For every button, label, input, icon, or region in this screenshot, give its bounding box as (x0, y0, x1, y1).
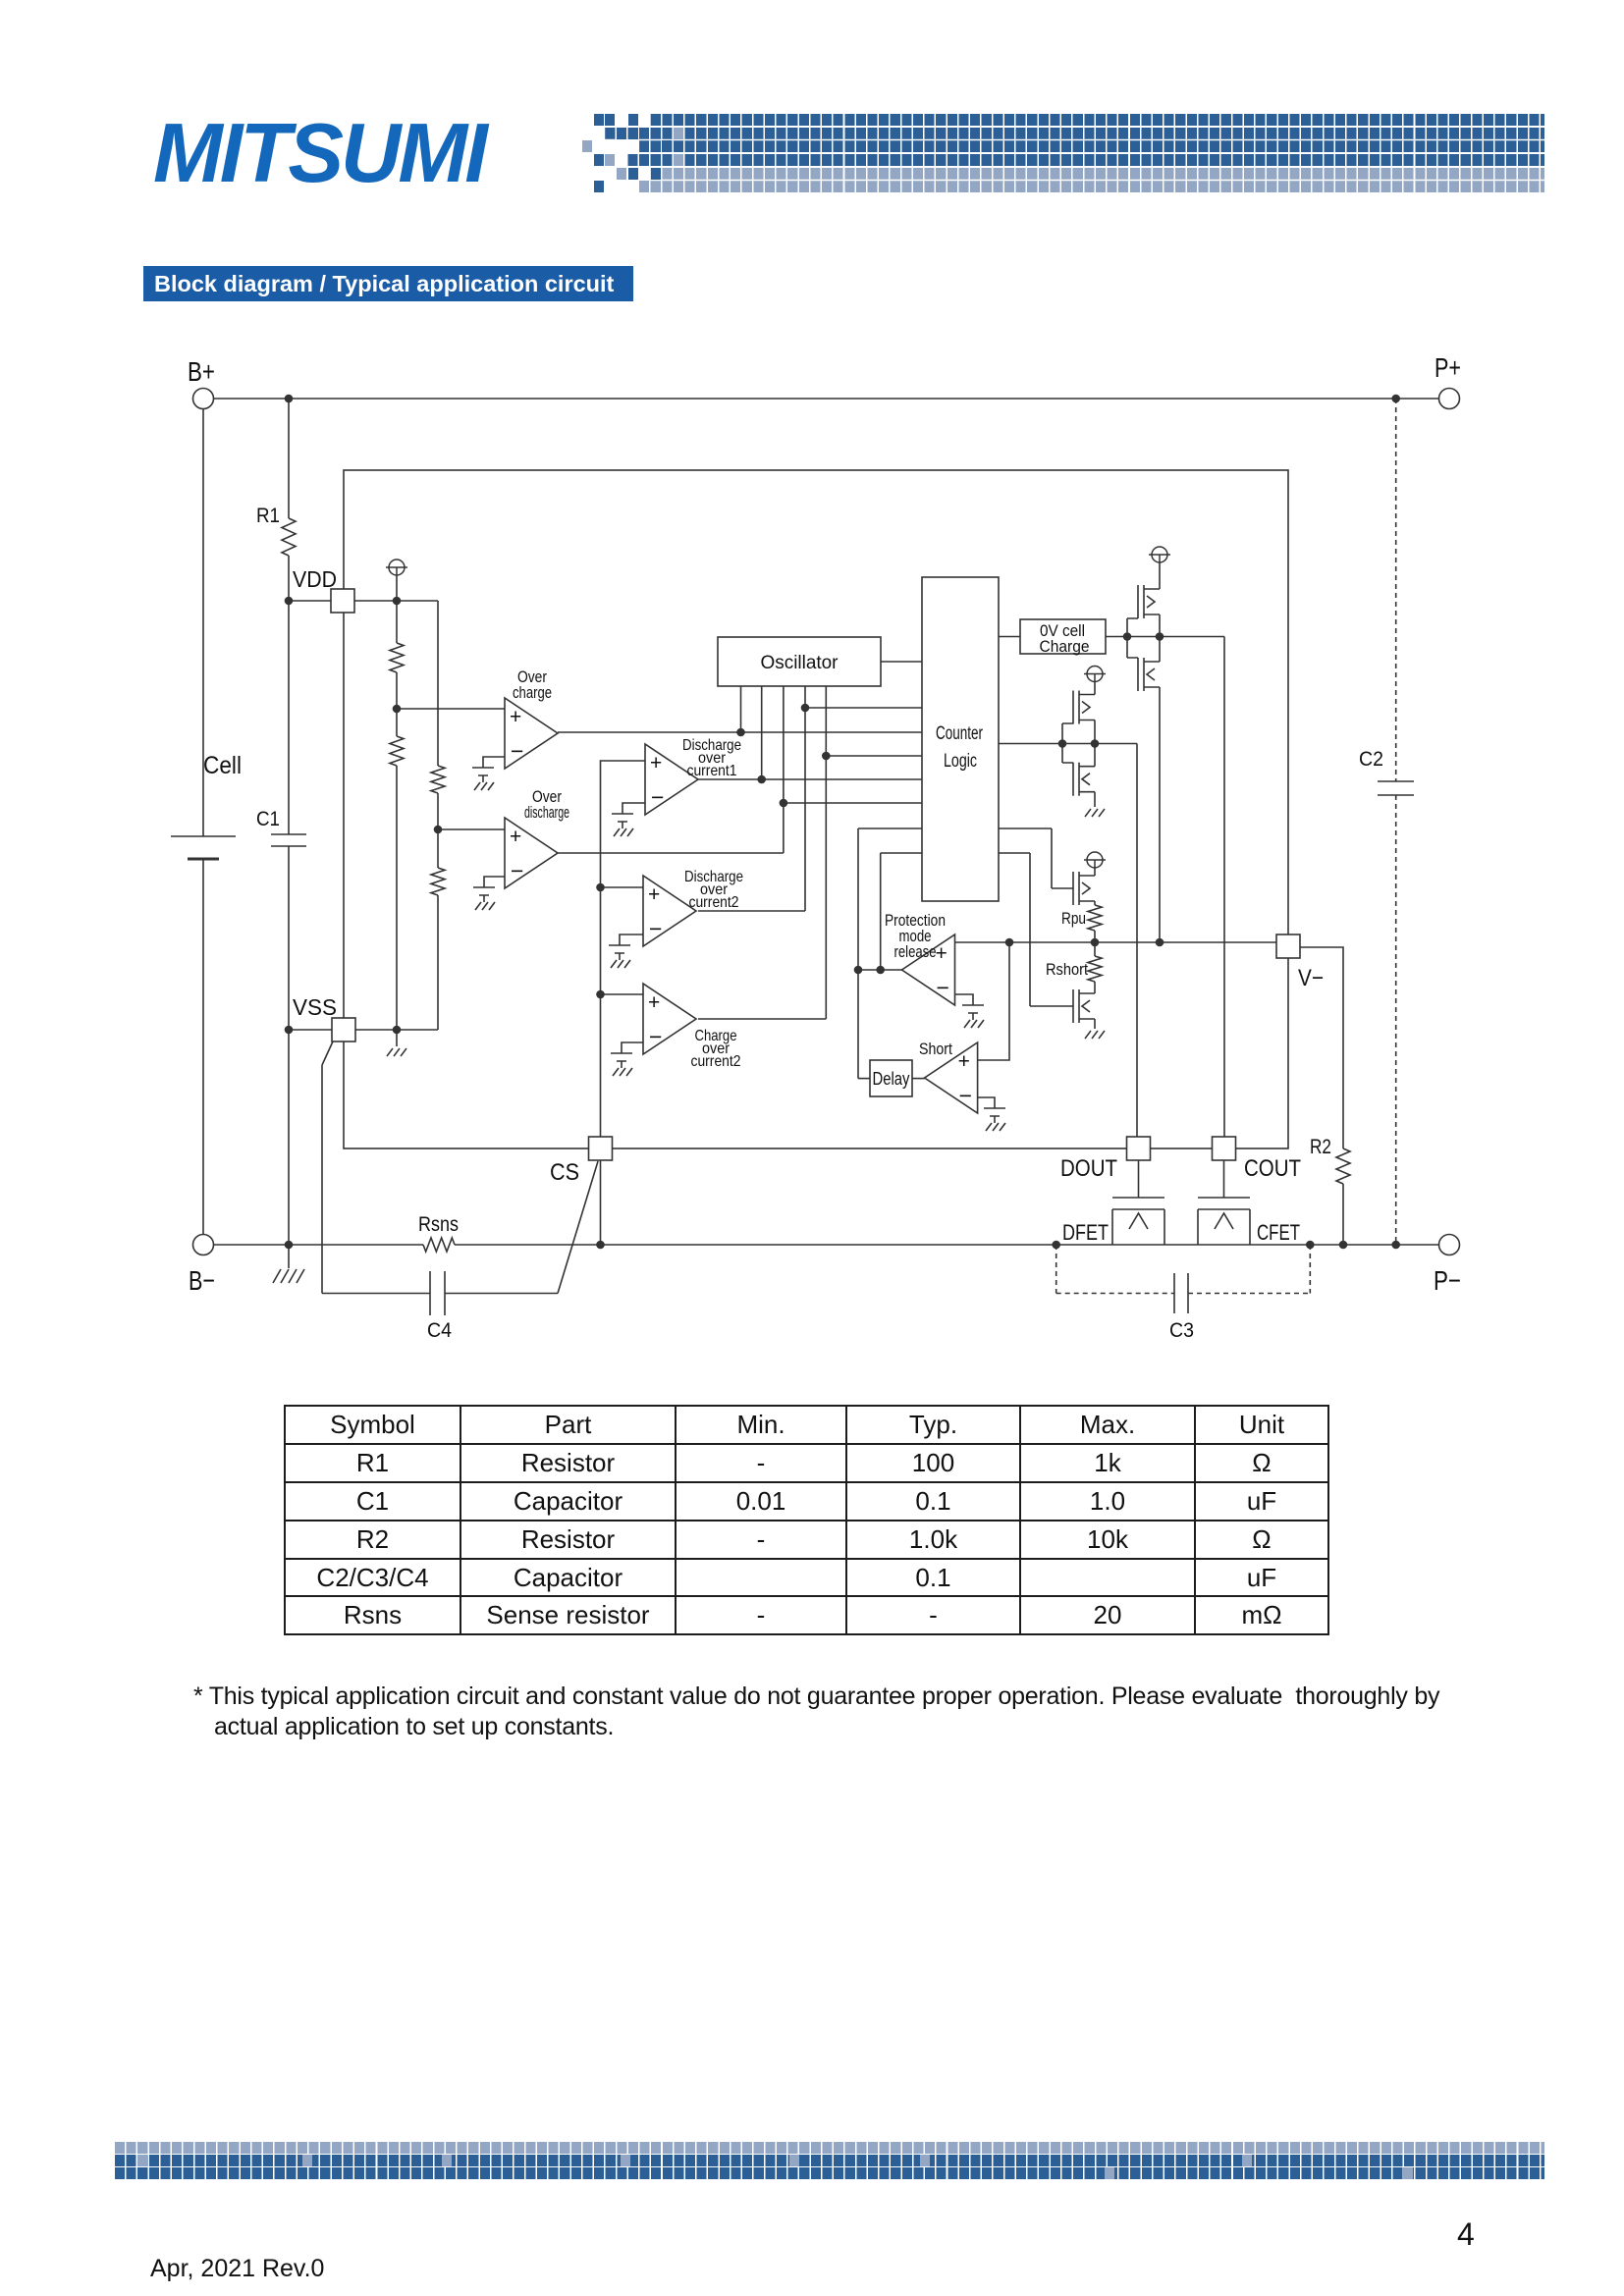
wire DOC1 output bus (698, 778, 922, 780)
node CFET drain / C3 box (1306, 1241, 1315, 1250)
transistor DFET (1112, 1160, 1164, 1245)
svg-text:+: + (650, 752, 662, 774)
node Rpu-Rshort / V- net (1091, 938, 1100, 947)
svg-text:+: + (936, 942, 947, 965)
wire DOC2 - to ref (620, 934, 643, 945)
wire VSS to C4 (322, 1041, 430, 1294)
pin VSS (332, 1018, 355, 1041)
footnote (193, 1682, 1439, 1742)
wire Q3 drain to node (1094, 721, 1096, 744)
node PMR out junction (876, 966, 885, 975)
svg-text:Counter: Counter (936, 723, 983, 744)
node pair2 output node (1091, 739, 1100, 748)
svg-text:+: + (648, 991, 660, 1014)
svg-text:−: − (937, 975, 949, 1000)
wire bus y770 (826, 755, 922, 757)
op-amp Discharge over current1 comparator (645, 744, 698, 815)
top right mosaic banner (582, 114, 1544, 126)
node short + / V- net (1005, 938, 1014, 947)
op-amp Short comparator (925, 1042, 978, 1113)
revision footer (150, 2255, 324, 2283)
node C2 / bottom rail (1391, 1241, 1400, 1250)
svg-text:DFET: DFET (1062, 1220, 1109, 1245)
MITSUMI logo (153, 106, 485, 202)
wire osc drop 2 (761, 686, 763, 779)
wire PMR out to counter (880, 853, 882, 970)
wire R1 to VDD node (288, 556, 290, 601)
op-amp Discharge over current2 comparator (643, 876, 696, 946)
wire osc drop 1 (740, 686, 742, 732)
svg-text:B−: B− (189, 1265, 215, 1296)
wire CS to comparator + inputs (601, 761, 646, 1137)
svg-text:CFET: CFET (1257, 1220, 1300, 1245)
svg-text:CS: CS (550, 1159, 579, 1186)
node drop4 / bus (801, 704, 810, 713)
wire Q4 drain to node (1094, 744, 1096, 767)
svg-text:Rshort: Rshort (1046, 960, 1088, 979)
wire bus y721 (805, 707, 922, 709)
transistor Q4 NMOS (1073, 763, 1095, 796)
svg-text:Oscillator: Oscillator (761, 653, 839, 673)
svg-text:Short: Short (919, 1040, 952, 1058)
resistor R2 (1336, 1148, 1350, 1184)
wire 0V block to pair1 node (1106, 636, 1224, 638)
node VSS ground stub (393, 1026, 402, 1035)
power symbol Rpu supply (1084, 852, 1106, 868)
svg-text:COUT: COUT (1244, 1155, 1301, 1182)
wire bus y869 (881, 852, 922, 854)
wire osc drop 3 and over-discharge output (558, 686, 784, 853)
svg-text:Delay: Delay (873, 1069, 910, 1089)
svg-text:Rsns: Rsns (418, 1213, 459, 1236)
ground below B- rail (273, 1269, 304, 1283)
wire over-charge output bus (558, 731, 922, 733)
svg-text:R1: R1 (256, 505, 280, 527)
wire over-discharge - to ref (484, 877, 505, 887)
IC body outline (344, 470, 1288, 1148)
node VDD node left (285, 597, 294, 606)
wire osc drop 4 and DOC2 output (698, 686, 805, 911)
op-amp Over charge comparator (505, 698, 558, 769)
svg-text:C3: C3 (1169, 1319, 1194, 1342)
ground at Q6 source (1085, 1031, 1105, 1039)
op-amp Charge over current2 comparator (643, 984, 696, 1054)
component value table (284, 1405, 1329, 1635)
wire chain B mid (437, 793, 439, 868)
svg-text:C4: C4 (427, 1319, 452, 1342)
wire C1 node to ground (288, 1245, 290, 1268)
node DOC2 + tap (596, 883, 605, 892)
wire Q2 source to V- net (1159, 687, 1161, 942)
resistor divider RA1 (390, 643, 404, 672)
wire pair2 gate tie wires (1062, 723, 1073, 763)
reference COC2 reference (611, 1053, 632, 1076)
terminal B+ (193, 389, 214, 409)
node bottom rail / C1 gnd (285, 1241, 294, 1250)
wire Q5 to Rpu (1094, 901, 1096, 905)
wire COC2 - to ref (622, 1042, 643, 1053)
node DFET source / C3 box (1052, 1241, 1060, 1250)
wire B+ to P+ top rail (214, 398, 1438, 400)
op-amp Protection mode release comparator (902, 934, 955, 1005)
capacitor C3 (1174, 1273, 1188, 1313)
svg-text:+: + (648, 883, 660, 906)
wire V- net (955, 941, 1277, 943)
wire V- net to Rshort (1094, 942, 1096, 956)
block Counter Logic (922, 577, 999, 901)
resistor divider RA2 (390, 736, 404, 766)
power symbol pair1 supply (1149, 547, 1170, 562)
svg-text:Rpu: Rpu (1061, 909, 1086, 928)
resistor Rpu (1088, 905, 1102, 931)
capacitor C1 (271, 601, 306, 1245)
transistor Q3 PMOS (1073, 691, 1095, 724)
svg-text:C2: C2 (1359, 748, 1383, 771)
svg-text:Logic: Logic (944, 751, 977, 772)
page number (1457, 2216, 1475, 2253)
node pair2 gate tie (1058, 739, 1067, 748)
svg-text:P−: P− (1434, 1265, 1461, 1296)
wire over-charge - to ref (483, 757, 505, 768)
reference over-discharge reference (473, 887, 495, 910)
wire C3 dashed right (1309, 1245, 1311, 1294)
wire counter to Q5 gate (999, 828, 1073, 888)
wire Short - to ref (978, 1097, 995, 1108)
node R2 / bottom rail (1339, 1241, 1348, 1250)
svg-text:−: − (959, 1083, 972, 1108)
reference DOC2 reference (609, 945, 630, 968)
resistor Rshort (1088, 956, 1102, 982)
wire counter to 0V block (999, 636, 1020, 638)
svg-text:+: + (510, 826, 521, 848)
terminal B- (193, 1235, 214, 1255)
wire bus y844 (858, 828, 922, 829)
wire supply to Q3 (1094, 682, 1096, 695)
wire Rshort to Q6 (1094, 982, 1096, 993)
transistor CFET (1198, 1160, 1250, 1245)
wire supply to Q5 (1094, 868, 1096, 876)
wire Q4 source to ground (1094, 792, 1096, 807)
node pair1 output node (1156, 632, 1164, 641)
battery Cell (171, 409, 236, 1235)
svg-text:−: − (511, 738, 523, 764)
node top rail / R1 (285, 395, 294, 403)
resistor divider RB1 (431, 766, 445, 793)
node over-charge tap (393, 705, 402, 714)
node CS / bottom rail (596, 1241, 605, 1250)
wire C2 dashed bottom (1395, 795, 1397, 1245)
wire pair2 output to DOUT (1136, 744, 1138, 1138)
bottom mosaic banner (115, 2142, 1544, 2154)
capacitor C4 (430, 1271, 445, 1315)
wire C3 dashed left (1056, 1245, 1057, 1294)
pin CS (589, 1137, 613, 1160)
transistor Q2 NMOS (1138, 658, 1160, 691)
svg-text:−: − (511, 858, 523, 883)
wire B+ to R1 (288, 399, 290, 518)
svg-text:Charge: Charge (1040, 638, 1090, 656)
wire tap to over-charge + (397, 708, 505, 710)
wire Rpu to V- net (1094, 931, 1096, 942)
node pair1 gate tie (1123, 632, 1132, 641)
wire Q6 source to ground (1094, 1019, 1096, 1029)
svg-text:Cell: Cell (203, 752, 242, 779)
reference over-charge reference (472, 768, 494, 790)
wire Delay to Short (912, 1078, 925, 1080)
svg-text:discharge: discharge (524, 804, 569, 822)
wire tap to COC2 + (601, 993, 644, 995)
wire DOC1 - to ref (623, 803, 645, 814)
transistor Q5 PMOS (1073, 872, 1095, 905)
resistor divider RB2 (431, 868, 445, 895)
svg-text:−: − (651, 784, 664, 810)
wire C3 dashed bottom (1056, 1293, 1311, 1295)
svg-text:R2: R2 (1310, 1136, 1331, 1158)
wire chain A mid (396, 672, 398, 736)
wire stub to ground (396, 1030, 398, 1046)
wire tap to DOC2 + (601, 886, 644, 888)
pin DOUT (1127, 1137, 1151, 1160)
wire supply to VDD wire (396, 575, 398, 601)
wire chain A top (396, 601, 398, 643)
wire Q2 drain to node (1159, 637, 1161, 663)
terminal P+ (1439, 389, 1460, 409)
node drop5 / bus (822, 752, 831, 761)
wire counter to pair2 node (999, 743, 1137, 745)
wire CS to bottom rail (600, 1160, 602, 1245)
terminal P- (1439, 1235, 1460, 1255)
svg-text:P+: P+ (1435, 352, 1461, 383)
ground at VSS stub (387, 1048, 406, 1056)
wire VSS pin wiring (289, 1029, 438, 1031)
wire pair1 gate tie wires (1127, 618, 1138, 658)
node top rail / C2 (1391, 395, 1400, 403)
svg-text:DOUT: DOUT (1060, 1155, 1117, 1182)
wire Q1 drain to node (1159, 614, 1161, 637)
wire counter to Q6 gate (999, 853, 1073, 1006)
reference DOC1 reference (612, 814, 633, 836)
wire R2 to bottom rail (1342, 1184, 1344, 1245)
svg-text:current1: current1 (687, 763, 737, 779)
node VDD / divider A (393, 597, 402, 606)
node over-discharge tap (434, 826, 443, 834)
wire tap to over-discharge + (438, 828, 505, 830)
node VSS wire tap (285, 1026, 294, 1035)
power symbol VDD supply (386, 560, 407, 575)
block Delay (870, 1060, 912, 1096)
node PMR out / delay line (854, 966, 863, 975)
svg-text:+: + (510, 706, 521, 728)
wire counter to delay line (857, 828, 859, 1079)
resistor R1 (282, 518, 296, 556)
wire supply to Q1 (1159, 562, 1161, 589)
node NMOS source / V- net (1156, 938, 1164, 947)
wire C2 dashed top (1395, 399, 1397, 781)
svg-text:current2: current2 (689, 894, 739, 911)
resistor Rsns (423, 1238, 455, 1252)
wire chain A bottom (396, 766, 398, 1030)
wire PMR output (858, 969, 902, 971)
op-amp Over discharge comparator (505, 818, 558, 888)
svg-text:+: + (958, 1050, 970, 1073)
reference PMR reference (962, 1005, 984, 1028)
svg-text:C1: C1 (256, 808, 280, 830)
svg-text:−: − (649, 1024, 662, 1049)
reference Short reference (984, 1108, 1005, 1131)
wire VDD pin wiring (289, 600, 438, 602)
pin VDD (331, 589, 354, 613)
svg-text:V−: V− (1298, 965, 1324, 991)
wire B- to P- bottom rail (214, 1244, 1438, 1246)
node drop1 / over-charge bus (736, 728, 745, 737)
svg-text:VSS: VSS (293, 994, 337, 1020)
capacitor C2 (1378, 781, 1414, 795)
block 0V cell Charge (1020, 619, 1106, 654)
svg-text:−: − (649, 916, 662, 941)
wire PMR - to ref (955, 994, 974, 1005)
wire Short + to V- net (978, 942, 1009, 1060)
transistor Q1 PMOS (1138, 585, 1160, 618)
svg-text:B+: B+ (188, 356, 215, 387)
ground at Q4 source (1085, 809, 1105, 817)
pin COUT (1213, 1137, 1236, 1160)
wire into Delay (858, 1078, 870, 1080)
svg-text:charge: charge (513, 684, 552, 702)
svg-text:current2: current2 (691, 1053, 741, 1070)
wire osc drop 5 and COC2 output (698, 686, 826, 1019)
wire chain B bottom (437, 895, 439, 1030)
wire C4 to CS (445, 1161, 598, 1294)
wire chain B top (437, 601, 439, 766)
wire V- pin to R2 (1300, 947, 1343, 1148)
transistor Q6 NMOS (1073, 989, 1095, 1023)
wire oscillator to counter (881, 661, 922, 663)
node drop3 / bus (780, 799, 788, 808)
block Oscillator (718, 637, 881, 686)
pin V- (1276, 934, 1300, 958)
node COC2 + tap (596, 990, 605, 999)
wire pair1 output to COUT (1223, 637, 1225, 1138)
power symbol pair2 supply (1084, 667, 1106, 682)
section header bar (143, 266, 633, 301)
svg-text:VDD: VDD (293, 566, 337, 592)
svg-text:release: release (894, 943, 937, 961)
node drop2 / DOC1 bus (757, 775, 766, 784)
wire bus y818 (784, 802, 922, 804)
